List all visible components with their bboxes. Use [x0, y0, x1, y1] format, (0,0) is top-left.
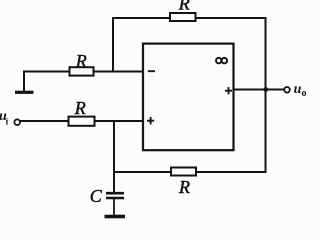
svg-text:R: R: [178, 177, 190, 197]
svg-text:R: R: [178, 0, 190, 14]
svg-text:u: u: [294, 82, 302, 97]
svg-text:o: o: [302, 88, 307, 99]
svg-text:R: R: [75, 51, 87, 71]
svg-text:R: R: [74, 98, 86, 118]
svg-text:C: C: [90, 186, 103, 206]
